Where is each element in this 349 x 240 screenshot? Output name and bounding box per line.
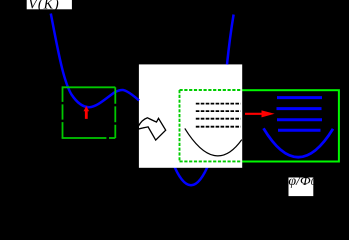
green solid zoom rectangle (right, partly hidden behind white inset)	[180, 90, 339, 161]
red arrow pointing up at shallow-well minimum	[84, 106, 90, 119]
hand-drawn white arrow to inset	[138, 118, 165, 140]
label phi/Phi0	[289, 178, 314, 197]
svg-text:φ/Φ0: φ/Φ0	[288, 174, 316, 189]
black dashed energy levels in inset	[196, 104, 241, 127]
blue potential curve deep well below inset	[173, 162, 210, 185]
blue potential curve left branch	[51, 14, 139, 108]
red arrow from inset to zoomed levels	[245, 110, 275, 117]
label V(K)	[27, 0, 72, 9]
blue potential curve right branch	[227, 15, 234, 65]
thin black well curve in inset	[185, 128, 242, 155]
svg-text:V(K): V(K)	[28, 0, 60, 13]
blue energy levels (zoomed)	[277, 98, 323, 131]
green dashed zoom-region edges on inset	[180, 90, 243, 161]
white inset panel	[139, 64, 242, 167]
green dashed box around shallow well	[62, 86, 116, 138]
blue well curve (zoomed)	[264, 128, 334, 157]
